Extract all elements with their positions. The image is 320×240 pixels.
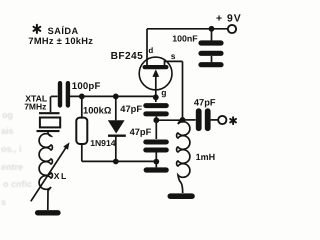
svg-text:XL: XL — [54, 171, 68, 181]
wire source to output node — [182, 61, 184, 120]
junction at 100nF tap — [209, 26, 215, 32]
junction source/output node — [180, 117, 186, 123]
wire output node to coupling cap — [183, 119, 196, 121]
svg-text:SAÍDA: SAÍDA — [48, 25, 79, 36]
+9V supply terminal — [216, 14, 242, 33]
wire drain lead — [146, 29, 148, 66]
junction diode top — [113, 94, 119, 100]
svg-text:7MHz ± 10kHz: 7MHz ± 10kHz — [28, 36, 93, 46]
wire top +9V rail — [147, 28, 228, 30]
svg-text:s: s — [1, 197, 6, 207]
svg-text:BF245: BF245 — [111, 51, 144, 62]
ground under 100nF — [201, 62, 221, 67]
ground under 1mH — [170, 193, 192, 199]
ground under cap chain — [146, 167, 166, 172]
svg-text:g: g — [161, 87, 166, 97]
svg-text:7MHz: 7MHz — [24, 101, 46, 111]
svg-text:o cnfic: o cnfic — [3, 179, 32, 189]
bleed-through ghost text (decorative) — [1, 110, 32, 207]
svg-text:+ 9V: + 9V — [216, 14, 242, 25]
output asterisk mark — [230, 117, 236, 124]
diode D1 1N914 — [90, 96, 126, 161]
wire gate row — [70, 95, 157, 97]
svg-text:47pF: 47pF — [120, 104, 142, 114]
wire cap junction to source node — [156, 119, 182, 121]
output label SAIDA — [28, 25, 93, 46]
capacitor C2 47pF source-ground — [130, 120, 167, 167]
junction diode bottom — [113, 159, 119, 165]
output terminal — [218, 116, 226, 124]
capacitor C3 47pF output coupling — [194, 97, 218, 128]
svg-text:os., i: os., i — [1, 144, 22, 154]
inductor L1 1mH — [177, 120, 216, 193]
capacitor C1 47pF gate-source — [120, 97, 166, 120]
ground under XL — [38, 210, 58, 215]
svg-text:100kΩ: 100kΩ — [83, 105, 112, 116]
svg-text:og: og — [2, 110, 13, 120]
crystal XTAL 7MHz — [24, 94, 60, 132]
resistor R1 100k — [76, 96, 112, 161]
capacitor 100nF — [172, 29, 221, 62]
svg-text:d: d — [148, 46, 153, 55]
svg-text:1N914: 1N914 — [90, 138, 116, 148]
junction between 47pF caps — [153, 117, 159, 123]
wire bottom row (R/D to cap chain) — [82, 160, 157, 162]
svg-text:47pF: 47pF — [194, 97, 216, 107]
junction cap chain bottom — [153, 159, 159, 165]
svg-text:100nF: 100nF — [172, 33, 198, 43]
svg-text:entre: entre — [1, 162, 23, 172]
junction resistor top — [79, 94, 85, 100]
inductor XL (adjustable) — [31, 132, 70, 210]
capacitor 100pF — [51, 81, 101, 106]
svg-text:1mH: 1mH — [196, 152, 216, 162]
transistor U1 BF245 — [111, 46, 183, 97]
svg-text:ais: ais — [1, 126, 14, 136]
svg-text:47pF: 47pF — [130, 127, 152, 137]
svg-text:s: s — [171, 51, 176, 61]
svg-text:100pF: 100pF — [72, 81, 101, 92]
junction gate node — [153, 94, 159, 100]
